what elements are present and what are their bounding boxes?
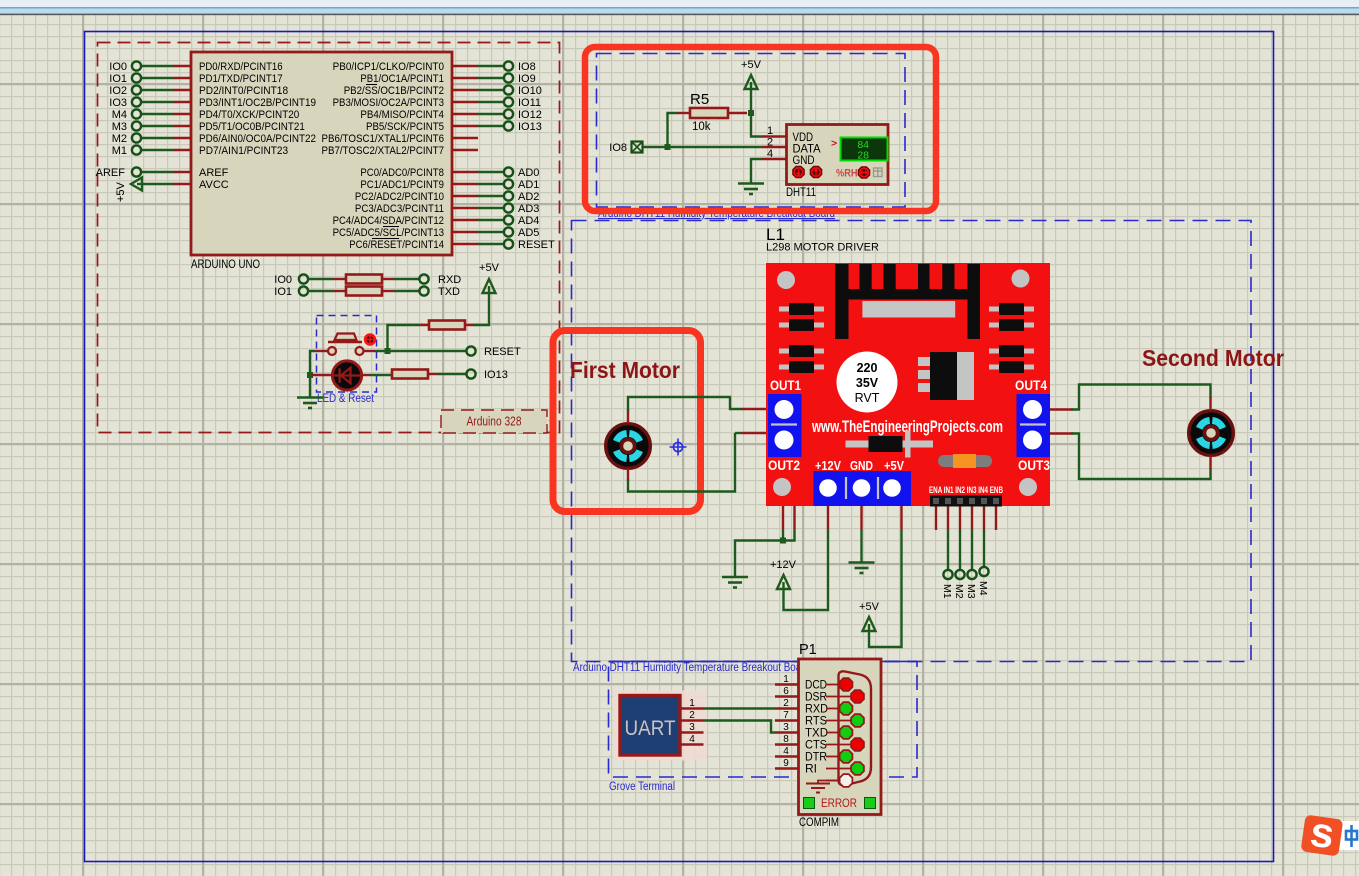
wire button left to ground/LED junction: [316, 350, 328, 352]
LED pin1: [826, 678, 852, 691]
svg-text:PD7/AIN1/PCINT23: PD7/AIN1/PCINT23: [199, 145, 288, 157]
terminal AD0 + pin PC0/ADC0/PCINT8: [360, 167, 539, 179]
LED pin9: [826, 774, 852, 787]
svg-text:RI: RI: [805, 764, 817, 776]
svg-text:PD4/T0/XCK/PCINT20: PD4/T0/XCK/PCINT20: [199, 109, 299, 121]
svg-text:AD3: AD3: [518, 203, 539, 215]
window top chrome bar: [0, 0, 1359, 15]
svg-text:IO1: IO1: [274, 286, 292, 298]
header pin stubs: [935, 507, 937, 531]
wire overlap: solid top edge of Grove region: [609, 661, 918, 663]
terminal M3: [965, 570, 977, 599]
svg-text:IO8: IO8: [609, 142, 627, 154]
svg-text:AVCC: AVCC: [199, 179, 229, 191]
wire LED to R3: [361, 374, 370, 376]
svg-text:PD2/INT0/PCINT18: PD2/INT0/PCINT18: [199, 85, 288, 97]
Grove Terminal dashed region: [609, 662, 918, 778]
terminal IO2 + pin PD2/INT0/PCINT18: [109, 85, 288, 97]
wire R4 to +5V: [465, 324, 474, 326]
LED pin7: [826, 750, 852, 763]
wire IO8 to DATA pin: [643, 146, 762, 148]
header ENA..ENB: [929, 485, 1003, 507]
svg-text:Grove Terminal: Grove Terminal: [609, 781, 675, 793]
wire IN1-IN4 to M terminals: [947, 530, 949, 570]
svg-text:RXD: RXD: [805, 704, 828, 716]
svg-text:+5V: +5V: [741, 59, 762, 71]
LED pin2: [826, 690, 864, 703]
red highlight box (First Motor): [553, 331, 701, 512]
voltage regulator transistor: [918, 352, 974, 400]
svg-text:PB2/SS/OC1B/PCINT2: PB2/SS/OC1B/PCINT2: [344, 85, 444, 97]
pin 6 DSR: [775, 686, 827, 704]
terminal AD3 + pin PC3/ADC3/PCINT11: [355, 203, 540, 215]
fuse (board): [938, 454, 992, 468]
svg-text:4: 4: [689, 734, 695, 745]
svg-text:PB3/MOSI/OC2A/PCINT3: PB3/MOSI/OC2A/PCINT3: [333, 97, 444, 109]
resistor R1 (RXD series): [346, 275, 382, 284]
svg-text:>: >: [831, 138, 837, 150]
svg-text:DTR: DTR: [805, 752, 827, 764]
svg-text:Arduino 328: Arduino 328: [467, 415, 522, 429]
terminal IO8 (input): [609, 142, 642, 155]
svg-text:IO13: IO13: [518, 121, 542, 133]
svg-text:+12V: +12V: [815, 458, 841, 473]
svg-text:PD3/INT1/OC2B/PCINT19: PD3/INT1/OC2B/PCINT19: [199, 97, 316, 109]
svg-text:IO2: IO2: [109, 85, 127, 97]
junction DATA: [665, 144, 671, 150]
COMPIM ground: [806, 781, 840, 793]
svg-text:AD2: AD2: [518, 191, 539, 203]
terminal AD2 + pin PC2/ADC2/PCINT10: [355, 191, 540, 203]
svg-text:PB7/TOSC2/XTAL2/PCINT7: PB7/TOSC2/XTAL2/PCINT7: [322, 145, 445, 157]
ground (LED &amp; Reset): [297, 398, 323, 409]
diode-LED D1: [311, 361, 362, 390]
OUT1/OUT2 terminal block: [768, 378, 802, 473]
svg-text:+5V: +5V: [884, 458, 904, 473]
svg-text:IO12: IO12: [518, 109, 542, 121]
terminal RESET: [466, 346, 521, 358]
pin 1 DCD: [775, 674, 827, 692]
watermark logo bottom-right: [1300, 807, 1359, 859]
svg-text:2: 2: [767, 137, 773, 149]
svg-text:AD5: AD5: [518, 227, 539, 239]
wire OUT-block gnd pins to ground: [782, 506, 784, 529]
svg-text:ERROR: ERROR: [821, 798, 857, 810]
Arduino 328 label box: [441, 410, 547, 433]
svg-text:%RH: %RH: [836, 168, 858, 180]
wire IO1-R2: [308, 290, 334, 292]
COMPIM body: [799, 659, 882, 815]
svg-text:First Motor: First Motor: [570, 357, 680, 383]
wire +5V down to VDD: [751, 89, 762, 137]
svg-text:PD1/TXD/PCINT17: PD1/TXD/PCINT17: [199, 73, 283, 85]
svg-text:PC4/ADC4/SDA/PCINT12: PC4/ADC4/SDA/PCINT12: [333, 215, 444, 227]
ERROR indicators: [804, 798, 876, 811]
svg-text:+5V: +5V: [479, 262, 500, 274]
DHT11 sensor body: [767, 125, 888, 185]
svg-text:28: 28: [857, 150, 869, 162]
junction below OUT2: [780, 538, 786, 544]
svg-text:IO3: IO3: [109, 97, 127, 109]
svg-text:220: 220: [857, 361, 878, 375]
svg-text:M3: M3: [112, 121, 127, 133]
wire first motor loop top (OUT1): [627, 409, 629, 424]
svg-text:1: 1: [689, 698, 695, 709]
svg-text:IO13: IO13: [484, 369, 508, 381]
svg-text:IO0: IO0: [274, 274, 292, 286]
power +12V: [770, 559, 797, 589]
svg-text:COMPIM: COMPIM: [799, 815, 839, 829]
LED &amp; Reset dashed box: [317, 316, 377, 393]
LED pin8: [826, 762, 864, 775]
terminal AD5 + pin PC5/ADC5/SCL/PCINT13: [333, 227, 540, 239]
terminal IO0 + pin PD0/RXD/PCINT16: [109, 61, 282, 73]
svg-text:OUT3: OUT3: [1018, 458, 1050, 473]
svg-text:ENA IN1 IN2 IN3 IN4 ENB: ENA IN1 IN2 IN3 IN4 ENB: [929, 485, 1003, 495]
red highlight box (DHT11 circuit): [585, 47, 936, 211]
terminal M3 + pin PD5/T1/OC0B/PCINT21: [112, 121, 305, 133]
svg-text:M2: M2: [112, 133, 127, 145]
svg-text:PC3/ADC3/PCINT11: PC3/ADC3/PCINT11: [355, 203, 444, 215]
svg-text:PB5/SCK/PCINT5: PB5/SCK/PCINT5: [366, 121, 444, 133]
svg-text:DCD: DCD: [805, 680, 827, 692]
wire R5 right to +5V rail: [728, 112, 747, 114]
svg-text:Second Motor: Second Motor: [1142, 345, 1284, 371]
DHT11 breakout dashed region: [597, 54, 906, 208]
svg-text:TXD: TXD: [438, 286, 460, 298]
UART pin stubs 1-4: [681, 698, 704, 709]
terminal M4 + pin PD4/T0/XCK/PCINT20: [112, 109, 300, 121]
svg-text:M2: M2: [953, 584, 965, 599]
terminal RESET + pin PC6/RESET/PCINT14: [349, 239, 555, 251]
svg-text:10k: 10k: [692, 121, 711, 133]
svg-text:AREF: AREF: [96, 167, 126, 179]
terminal IO12 + pin PB4/MISO/PCINT4: [360, 109, 541, 121]
terminal TXD: [419, 286, 460, 298]
wire R1-RXD: [382, 278, 393, 280]
svg-text:L298 MOTOR DRIVER: L298 MOTOR DRIVER: [766, 242, 879, 254]
svg-text:2: 2: [689, 710, 695, 721]
svg-text:LED & Reset: LED & Reset: [317, 393, 375, 405]
pin 2 RXD: [775, 698, 828, 716]
svg-text:PB6/TOSC1/XTAL1/PCINT6: PB6/TOSC1/XTAL1/PCINT6: [322, 133, 445, 145]
terminal M2: [953, 570, 965, 599]
junction R5/+5V: [748, 110, 754, 116]
capacitor marking circle 220 35V RVT: [837, 352, 898, 413]
svg-text:6: 6: [783, 686, 789, 697]
power +5V (reset pullup): [479, 262, 500, 293]
LED pin5: [826, 726, 852, 739]
transistor L1 label: [766, 225, 879, 254]
overline SS: [366, 84, 377, 86]
svg-text:OUT2: OUT2: [768, 458, 800, 473]
UART terminal block: [620, 696, 680, 756]
GND pin wire: [860, 506, 862, 529]
pin AREF: [96, 167, 229, 179]
pin AVCC with +5V power arrow: [115, 178, 229, 203]
junction RESET/pullup: [385, 348, 391, 354]
junction LED/gnd: [307, 372, 313, 378]
svg-text:3: 3: [689, 722, 695, 733]
terminal IO11 + pin PB3/MOSI/OC2A/PCINT3: [333, 97, 541, 109]
terminal IO13: [466, 369, 507, 381]
svg-text:PB4/MISO/PCINT4: PB4/MISO/PCINT4: [360, 109, 444, 121]
ground (below L298): [849, 563, 875, 574]
pin 3 TXD: [775, 722, 828, 740]
svg-text:9: 9: [783, 758, 789, 769]
svg-text:DATA: DATA: [793, 144, 821, 156]
right SMD diodes: [989, 303, 1034, 373]
pin PB6/TOSC1/XTAL1/PCINT6: [322, 133, 479, 145]
svg-text:VDD: VDD: [793, 132, 814, 144]
svg-text:OUT1: OUT1: [770, 378, 801, 393]
terminal AD1 + pin PC1/ADC1/PCINT9: [360, 179, 539, 191]
svg-text:PD0/RXD/PCINT16: PD0/RXD/PCINT16: [199, 61, 283, 73]
terminal IO9 + pin PB1/OC1A/PCINT1: [360, 73, 535, 85]
svg-text:RXD: RXD: [438, 274, 461, 286]
svg-text:IO0: IO0: [109, 61, 127, 73]
+12V pin wire: [827, 506, 829, 529]
wire second motor loop top (OUT4): [1050, 408, 1073, 410]
svg-text:IO11: IO11: [518, 97, 541, 109]
terminal M1 + pin PD7/AIN1/PCINT23: [112, 145, 288, 157]
svg-text:ARDUINO UNO: ARDUINO UNO: [191, 259, 260, 271]
svg-text:PD5/T1/OC0B/PCINT21: PD5/T1/OC0B/PCINT21: [199, 121, 305, 133]
cursor crosshair: [670, 439, 687, 456]
svg-text:8: 8: [783, 734, 789, 745]
terminal IO3 + pin PD3/INT1/OC2B/PCINT19: [109, 97, 316, 109]
svg-text:RESET: RESET: [518, 239, 555, 251]
svg-text:TXD: TXD: [805, 728, 828, 740]
pin 9 RI: [775, 758, 817, 776]
resistor R2 (TXD series): [346, 287, 382, 296]
resistor R3 (LED series): [392, 370, 428, 379]
pin 7 RTS: [775, 710, 827, 728]
svg-text:GND: GND: [850, 458, 873, 473]
wire second motor loop bottom (OUT3): [1050, 432, 1073, 434]
OUT4/OUT3 terminal block: [1015, 378, 1050, 473]
wire UART pin2 to COMPIM TXD: [704, 721, 776, 733]
svg-text:IO9: IO9: [518, 73, 536, 85]
svg-text:PB1/OC1A/PCINT1: PB1/OC1A/PCINT1: [360, 73, 444, 85]
svg-text:PD6/AIN0/OC0A/PCINT22: PD6/AIN0/OC0A/PCINT22: [199, 133, 316, 145]
svg-text:4: 4: [767, 148, 773, 160]
svg-text:IO8: IO8: [518, 61, 536, 73]
terminal IO8 + pin PB0/ICP1/CLKO/PCINT0: [333, 61, 536, 73]
svg-text:M3: M3: [965, 584, 977, 599]
svg-text:RESET: RESET: [484, 346, 521, 358]
resistor R4 (reset pullup): [429, 321, 465, 330]
pin PB7/TOSC2/XTAL2/PCINT7: [322, 145, 479, 157]
terminal M1: [941, 570, 953, 599]
terminal RXD: [419, 274, 461, 286]
svg-text:RTS: RTS: [805, 716, 827, 728]
svg-text:CTS: CTS: [805, 740, 827, 752]
svg-text:3: 3: [783, 722, 789, 733]
power terminal block +12V GND +5V: [814, 458, 912, 506]
terminal M2 + pin PD6/AIN0/OC0A/PCINT22: [112, 133, 316, 145]
svg-text:IO10: IO10: [518, 85, 542, 97]
svg-text:AREF: AREF: [199, 167, 229, 179]
svg-text:DHT11: DHT11: [786, 185, 816, 199]
Arduino 328 sub-circuit dashed boundary: [98, 43, 560, 433]
svg-text:PC0/ADC0/PCINT8: PC0/ADC0/PCINT8: [360, 167, 444, 179]
svg-text:4: 4: [783, 746, 789, 757]
ground (DHT11): [738, 184, 764, 195]
L298 dashed region: [572, 221, 1252, 662]
svg-text:M4: M4: [112, 109, 127, 121]
svg-text:1: 1: [767, 125, 773, 137]
wire button right to RESET: [364, 350, 376, 352]
LED pin6: [826, 738, 864, 751]
motor M-FIRST: [606, 424, 651, 469]
resistor R5 10k: [690, 91, 728, 133]
svg-text:M4: M4: [977, 581, 989, 596]
L298 red board: [766, 263, 1050, 506]
LED pin3: [826, 702, 852, 715]
svg-text:PC2/ADC2/PCINT10: PC2/ADC2/PCINT10: [355, 191, 444, 203]
overline RESET in PC6 row: [372, 238, 399, 240]
svg-text:2: 2: [783, 698, 789, 709]
svg-text:OUT4: OUT4: [1015, 378, 1047, 393]
power +5V (L298): [859, 601, 880, 631]
terminal IO0 (serial): [274, 274, 308, 286]
svg-text:35V: 35V: [856, 376, 879, 390]
svg-text:PC5/ADC5/SCL/PCINT13: PC5/ADC5/SCL/PCINT13: [333, 227, 444, 239]
op-amp U1 : ARDUINO UNO (ATmega328) chip body: [191, 52, 452, 271]
svg-text:P1: P1: [799, 642, 817, 658]
svg-text:+5V: +5V: [115, 181, 127, 202]
+5V pin wire: [900, 506, 902, 529]
svg-text:PB0/ICP1/CLKO/PCINT0: PB0/ICP1/CLKO/PCINT0: [333, 61, 444, 73]
terminal M4: [977, 567, 989, 596]
svg-text:RVT: RVT: [855, 391, 880, 405]
wire first motor loop bottom (OUT2): [627, 469, 629, 482]
svg-text:IO1: IO1: [109, 73, 127, 85]
svg-text:GND: GND: [793, 155, 815, 167]
wire R2-TXD: [382, 290, 393, 292]
left SMD diodes: [779, 303, 824, 373]
ground (left of L298): [722, 577, 748, 588]
wire IO0-R1: [308, 278, 334, 280]
wire junction up to R4 pullup: [388, 325, 421, 351]
wire GND pin to ground: [762, 158, 786, 160]
svg-text:PC6/RESET/PCINT14: PC6/RESET/PCINT14: [349, 239, 444, 251]
svg-text:AD1: AD1: [518, 179, 539, 191]
svg-text:7: 7: [783, 710, 789, 721]
wire UART pin1 to COMPIM RXD: [704, 707, 776, 709]
push button (reset): [328, 334, 375, 356]
DHT11 LCD display: [831, 138, 888, 162]
svg-text:+12V: +12V: [770, 559, 797, 571]
diode D (board): [846, 431, 934, 458]
svg-text:AD0: AD0: [518, 167, 539, 179]
terminal IO1 (serial): [274, 286, 308, 298]
power +5V (DHT11): [741, 59, 762, 89]
wire R3 to IO13: [428, 373, 438, 375]
pin 8 CTS: [775, 734, 827, 752]
svg-text:DSR: DSR: [805, 692, 827, 704]
svg-text:PC1/ADC1/PCINT9: PC1/ADC1/PCINT9: [360, 179, 444, 191]
svg-text:AD4: AD4: [518, 215, 539, 227]
terminal IO13 + pin PB5/SCK/PCINT5: [366, 121, 542, 133]
terminal IO1 + pin PD1/TXD/PCINT17: [109, 73, 282, 85]
wire R5 left down to DATA: [678, 112, 690, 114]
terminal AD4 + pin PC4/ADC4/SDA/PCINT12: [333, 215, 540, 227]
motor M-SECOND: [1189, 411, 1234, 456]
svg-text:+5V: +5V: [859, 601, 880, 613]
overline SCL in PC5 row: [383, 226, 399, 228]
LED pin4: [826, 714, 864, 727]
UART highlight backdrop: [613, 691, 707, 761]
terminal IO10 + pin PB2/SS/OC1B/PCINT2: [344, 85, 542, 97]
svg-text:R5: R5: [690, 91, 709, 108]
svg-text:UART: UART: [625, 717, 676, 740]
svg-text:M1: M1: [112, 145, 127, 157]
svg-text:M1: M1: [941, 584, 953, 599]
DB9 connector outline: [839, 671, 872, 785]
heatsink: [835, 264, 980, 339]
pin 4 DTR: [775, 746, 827, 764]
DHT11 knobs and %RH: [793, 166, 882, 179]
svg-text:1: 1: [783, 674, 789, 685]
mounting holes: [773, 270, 1037, 497]
